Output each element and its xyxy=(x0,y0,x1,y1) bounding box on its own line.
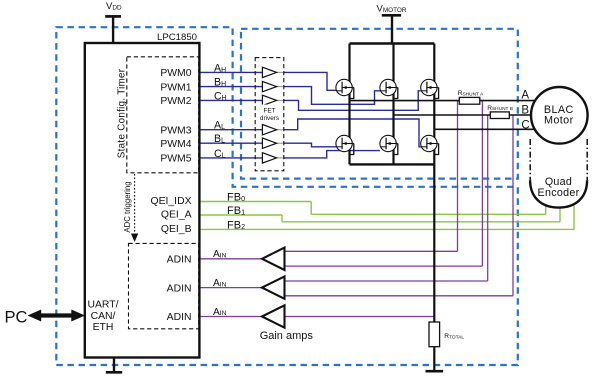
svg-text:Gain amps: Gain amps xyxy=(260,330,314,342)
svg-text:PWM5: PWM5 xyxy=(160,154,191,165)
svg-text:PC: PC xyxy=(5,309,28,327)
svg-text:PWM1: PWM1 xyxy=(160,82,191,93)
svg-text:ADIN: ADIN xyxy=(167,312,192,323)
svg-text:PWM2: PWM2 xyxy=(160,96,191,107)
svg-text:CAN/: CAN/ xyxy=(91,311,116,322)
svg-text:FB0: FB0 xyxy=(227,192,245,204)
svg-text:UART/: UART/ xyxy=(88,300,119,311)
svg-text:PWM4: PWM4 xyxy=(160,139,191,150)
svg-text:Encoder: Encoder xyxy=(538,187,580,199)
svg-text:ADC triggering: ADC triggering xyxy=(123,181,132,232)
svg-text:FB2: FB2 xyxy=(227,220,245,232)
svg-text:B: B xyxy=(521,105,529,117)
svg-text:ETH: ETH xyxy=(93,322,114,333)
svg-text:LPC1850: LPC1850 xyxy=(157,32,197,43)
svg-text:FET: FET xyxy=(263,107,275,114)
svg-text:PWM0: PWM0 xyxy=(160,68,191,79)
svg-text:Motor: Motor xyxy=(544,115,574,127)
svg-text:ADIN: ADIN xyxy=(167,255,192,266)
svg-text:QEI_B: QEI_B xyxy=(161,224,192,235)
svg-text:A: A xyxy=(521,89,529,101)
svg-text:drivers: drivers xyxy=(260,115,279,122)
svg-text:C: C xyxy=(521,120,529,132)
svg-text:State Config. Timer: State Config. Timer xyxy=(117,68,128,158)
svg-text:PWM3: PWM3 xyxy=(160,125,191,136)
svg-text:FB1: FB1 xyxy=(227,205,245,217)
svg-text:QEI_IDX: QEI_IDX xyxy=(151,196,192,207)
svg-text:ADIN: ADIN xyxy=(167,283,192,294)
svg-text:QEI_A: QEI_A xyxy=(161,209,192,220)
